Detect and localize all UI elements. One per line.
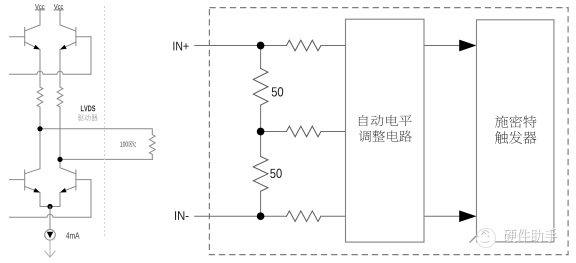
transistor Q2 (top-right) xyxy=(60,27,91,49)
resistor series middle xyxy=(287,126,321,137)
wire divider mid segment xyxy=(260,105,262,156)
label IN+ xyxy=(173,42,188,51)
node tail junction xyxy=(47,204,52,209)
label 驱动器 (driver) xyxy=(78,114,98,121)
boundary dashed line xyxy=(104,6,106,236)
resistor left leg xyxy=(37,87,43,107)
label U1 line2 调整电路 xyxy=(359,130,412,142)
wire bottom bus with hop xyxy=(10,214,92,217)
wire left leg down xyxy=(39,107,41,169)
block U1 automatic level adjust xyxy=(346,19,425,242)
wire emitters to tail node xyxy=(40,193,60,207)
wire block1 to arrow top xyxy=(424,45,461,47)
node mid junction xyxy=(257,128,265,136)
label 50 lower xyxy=(270,169,282,178)
wire mid node to resistor xyxy=(261,131,287,133)
wire top bus with hops xyxy=(10,71,92,74)
wire termination bottom xyxy=(60,158,152,160)
wire Q1 emitter down xyxy=(39,50,41,88)
wire divider top segment xyxy=(260,46,262,69)
label 欧 (ohm) xyxy=(128,141,136,147)
transistor Q4 (bottom-right) xyxy=(60,168,91,193)
watermark logo icon xyxy=(470,229,496,248)
node IN- junction xyxy=(257,212,265,220)
label 4mA xyxy=(66,232,80,238)
block U2 schmitt trigger xyxy=(477,20,554,242)
label LVDS xyxy=(81,105,95,111)
wire to termination top xyxy=(40,129,152,135)
label 50 upper xyxy=(272,87,284,96)
power label Vcc 2 xyxy=(54,4,63,9)
wire block1 to arrow bottom xyxy=(424,215,461,217)
wire IN+ to node xyxy=(195,45,287,47)
resistor 50 upper xyxy=(253,68,268,105)
wire tail to current source xyxy=(49,207,51,230)
node junction B xyxy=(57,157,62,162)
watermark text 硬件助手 xyxy=(504,229,558,243)
resistor series bottom xyxy=(287,211,321,222)
node junction A xyxy=(37,126,42,131)
resistor 100 ohm termination xyxy=(149,135,155,155)
arrow into block U2 bottom xyxy=(459,210,476,222)
label U2 line2 触发器 xyxy=(495,131,536,144)
wire top resistor to block xyxy=(321,45,346,47)
resistor right leg xyxy=(57,87,63,107)
ground xyxy=(45,251,55,257)
wire current source to ground xyxy=(49,240,51,256)
transistor Q1 (top-left) xyxy=(10,27,41,49)
label 100 xyxy=(120,142,128,147)
wire Q2 emitter down xyxy=(59,50,61,88)
wire mid resistor to block xyxy=(321,131,346,133)
wire Q2 base drop xyxy=(90,37,92,75)
current source I1 4mA xyxy=(45,230,56,241)
label U1 line1 自动电平 xyxy=(359,115,412,126)
wire Vcc1 to Q1 collector xyxy=(25,11,40,32)
label IN- xyxy=(175,211,188,220)
label U2 line1 施密特 xyxy=(495,115,537,128)
dashed receiver box xyxy=(209,8,568,255)
transistor Q3 (bottom-left) xyxy=(10,169,41,193)
resistor 50 lower xyxy=(253,156,268,191)
wire IN- to node xyxy=(195,215,287,217)
wire bottom resistor to block xyxy=(321,215,346,217)
power label Vcc 1 xyxy=(35,4,44,9)
wire divider bottom segment xyxy=(260,191,262,216)
wire Vcc2 to Q2 collector xyxy=(60,11,76,32)
node IN+ junction xyxy=(257,42,265,50)
wire right leg down xyxy=(59,107,61,168)
wire Q4 base drop xyxy=(90,180,92,218)
arrow into block U2 top xyxy=(459,40,476,52)
resistor series top xyxy=(287,40,321,51)
